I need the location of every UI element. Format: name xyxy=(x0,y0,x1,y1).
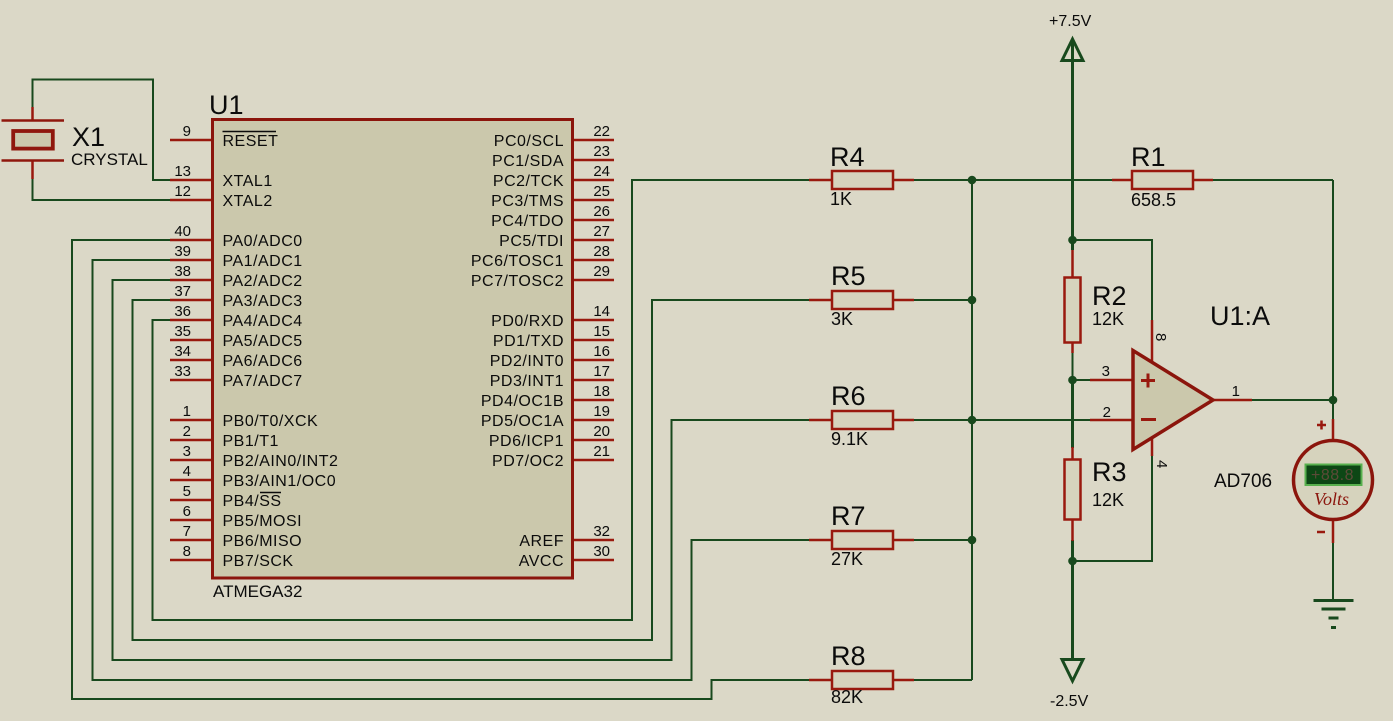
svg-text:1: 1 xyxy=(1232,383,1240,400)
svg-text:82K: 82K xyxy=(831,687,863,707)
svg-text:PB5/MOSI: PB5/MOSI xyxy=(223,513,303,530)
svg-text:PA6/ADC6: PA6/ADC6 xyxy=(223,353,303,370)
svg-text:-2.5V: -2.5V xyxy=(1050,693,1089,710)
svg-text:9.1K: 9.1K xyxy=(831,429,868,449)
svg-text:XTAL2: XTAL2 xyxy=(223,193,273,210)
svg-text:PB1/T1: PB1/T1 xyxy=(223,433,279,450)
svg-text:R2: R2 xyxy=(1092,281,1127,311)
svg-text:27: 27 xyxy=(593,223,610,240)
svg-text:15: 15 xyxy=(593,323,610,340)
svg-text:22: 22 xyxy=(593,123,610,140)
svg-text:AD706: AD706 xyxy=(1214,471,1272,492)
svg-text:ATMEGA32: ATMEGA32 xyxy=(213,582,302,601)
svg-text:PC5/TDI: PC5/TDI xyxy=(499,233,564,250)
svg-text:PB2/AIN0/INT2: PB2/AIN0/INT2 xyxy=(223,453,339,470)
svg-text:17: 17 xyxy=(593,363,610,380)
svg-text:3: 3 xyxy=(1102,363,1110,380)
svg-text:PB0/T0/XCK: PB0/T0/XCK xyxy=(223,413,319,430)
svg-text:PB4/SS: PB4/SS xyxy=(223,493,282,510)
svg-text:28: 28 xyxy=(593,243,610,260)
svg-text:33: 33 xyxy=(174,363,191,380)
svg-text:658.5: 658.5 xyxy=(1131,190,1176,210)
svg-text:PA5/ADC5: PA5/ADC5 xyxy=(223,333,303,350)
svg-text:PA1/ADC1: PA1/ADC1 xyxy=(223,253,303,270)
svg-text:4: 4 xyxy=(1153,460,1170,468)
svg-text:U1: U1 xyxy=(209,90,244,120)
svg-text:30: 30 xyxy=(593,543,610,560)
svg-text:35: 35 xyxy=(174,323,191,340)
svg-text:+88.8: +88.8 xyxy=(1311,467,1354,484)
svg-text:8: 8 xyxy=(183,543,191,560)
svg-text:PC2/TCK: PC2/TCK xyxy=(493,173,564,190)
svg-text:PD1/TXD: PD1/TXD xyxy=(493,333,564,350)
svg-text:R3: R3 xyxy=(1092,457,1127,487)
svg-text:X1: X1 xyxy=(72,122,105,152)
svg-text:36: 36 xyxy=(174,303,191,320)
svg-text:4: 4 xyxy=(183,463,191,480)
svg-text:7: 7 xyxy=(183,523,191,540)
svg-text:12K: 12K xyxy=(1092,309,1124,329)
svg-text:5: 5 xyxy=(183,483,191,500)
svg-text:PA7/ADC7: PA7/ADC7 xyxy=(223,373,303,390)
svg-text:23: 23 xyxy=(593,143,610,160)
svg-text:R4: R4 xyxy=(830,142,865,172)
svg-text:2: 2 xyxy=(1103,404,1111,421)
svg-text:Volts: Volts xyxy=(1314,489,1349,509)
svg-text:PD2/INT0: PD2/INT0 xyxy=(490,353,564,370)
svg-text:24: 24 xyxy=(593,163,610,180)
svg-text:PC7/TOSC2: PC7/TOSC2 xyxy=(471,273,564,290)
svg-text:32: 32 xyxy=(593,523,610,540)
svg-text:20: 20 xyxy=(593,423,610,440)
svg-text:PC3/TMS: PC3/TMS xyxy=(491,193,564,210)
svg-text:PD0/RXD: PD0/RXD xyxy=(491,313,564,330)
svg-text:29: 29 xyxy=(593,263,610,280)
svg-text:PD3/INT1: PD3/INT1 xyxy=(490,373,564,390)
svg-text:26: 26 xyxy=(593,203,610,220)
svg-text:21: 21 xyxy=(593,443,610,460)
svg-text:9: 9 xyxy=(183,123,191,140)
svg-text:3: 3 xyxy=(183,443,191,460)
svg-text:14: 14 xyxy=(593,303,610,320)
svg-text:3K: 3K xyxy=(831,309,853,329)
svg-text:PD4/OC1B: PD4/OC1B xyxy=(481,393,564,410)
svg-text:PD6/ICP1: PD6/ICP1 xyxy=(489,433,564,450)
svg-text:1: 1 xyxy=(183,403,191,420)
svg-text:R6: R6 xyxy=(831,381,866,411)
svg-text:XTAL1: XTAL1 xyxy=(223,173,273,190)
svg-text:R1: R1 xyxy=(1131,142,1166,172)
svg-text:U1:A: U1:A xyxy=(1210,301,1270,331)
svg-text:38: 38 xyxy=(174,263,191,280)
svg-text:16: 16 xyxy=(593,343,610,360)
svg-text:PC1/SDA: PC1/SDA xyxy=(492,153,564,170)
svg-text:34: 34 xyxy=(174,343,191,360)
svg-text:PA3/ADC3: PA3/ADC3 xyxy=(223,293,303,310)
svg-text:+7.5V: +7.5V xyxy=(1049,13,1092,30)
svg-text:PB7/SCK: PB7/SCK xyxy=(223,553,294,570)
svg-text:PB6/MISO: PB6/MISO xyxy=(223,533,303,550)
svg-text:2: 2 xyxy=(183,423,191,440)
svg-text:1K: 1K xyxy=(830,189,852,209)
svg-text:PA0/ADC0: PA0/ADC0 xyxy=(223,233,303,250)
svg-text:R7: R7 xyxy=(831,501,866,531)
svg-text:PC0/SCL: PC0/SCL xyxy=(494,133,564,150)
svg-text:RESET: RESET xyxy=(223,133,279,150)
svg-text:PB3/AIN1/OC0: PB3/AIN1/OC0 xyxy=(223,473,337,490)
svg-text:R5: R5 xyxy=(831,261,866,291)
svg-text:PA2/ADC2: PA2/ADC2 xyxy=(223,273,303,290)
svg-text:40: 40 xyxy=(174,223,191,240)
svg-text:25: 25 xyxy=(593,183,610,200)
svg-text:19: 19 xyxy=(593,403,610,420)
svg-text:PC4/TDO: PC4/TDO xyxy=(491,213,564,230)
svg-text:PA4/ADC4: PA4/ADC4 xyxy=(223,313,303,330)
svg-text:12: 12 xyxy=(174,183,191,200)
svg-text:37: 37 xyxy=(174,283,191,300)
svg-text:PD7/OC2: PD7/OC2 xyxy=(492,453,564,470)
svg-text:AVCC: AVCC xyxy=(519,553,564,570)
svg-text:12K: 12K xyxy=(1092,490,1124,510)
svg-text:AREF: AREF xyxy=(519,533,564,550)
svg-text:R8: R8 xyxy=(831,641,866,671)
svg-text:PC6/TOSC1: PC6/TOSC1 xyxy=(471,253,564,270)
svg-text:39: 39 xyxy=(174,243,191,260)
svg-text:PD5/OC1A: PD5/OC1A xyxy=(481,413,564,430)
svg-text:27K: 27K xyxy=(831,549,863,569)
svg-text:CRYSTAL: CRYSTAL xyxy=(71,150,148,169)
svg-text:6: 6 xyxy=(183,503,191,520)
svg-text:8: 8 xyxy=(1152,333,1169,341)
svg-text:18: 18 xyxy=(593,383,610,400)
svg-text:13: 13 xyxy=(174,163,191,180)
